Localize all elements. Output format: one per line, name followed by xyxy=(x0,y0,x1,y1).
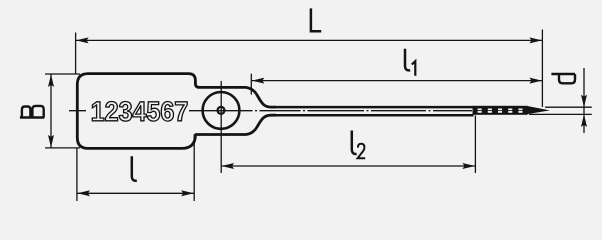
strip top edge xyxy=(274,106,474,109)
arrow B bottom xyxy=(48,135,54,148)
extension line l2 right xyxy=(474,116,476,174)
dimension B line xyxy=(50,74,52,147)
arrow l left xyxy=(77,190,90,196)
strip serration band xyxy=(473,106,528,115)
strip pointed tip xyxy=(527,106,550,114)
arrow l1 left xyxy=(252,78,265,84)
centerline vertical through circle xyxy=(220,81,222,173)
extension line right (L and l1) xyxy=(541,30,543,108)
extension line L left xyxy=(75,33,77,75)
label d xyxy=(551,74,575,83)
arrow l2 right xyxy=(462,163,475,169)
dimension l2 line xyxy=(222,165,476,167)
hole circle xyxy=(203,92,240,129)
label l1 xyxy=(405,49,415,76)
arrow l1 right xyxy=(529,78,542,84)
arrow l right xyxy=(181,190,194,196)
extension line l right xyxy=(193,135,195,202)
arrow L left xyxy=(76,37,89,43)
dimension L line xyxy=(76,39,542,41)
extension line d bottom xyxy=(529,113,592,115)
extension line l left xyxy=(76,148,78,201)
label L xyxy=(311,8,321,31)
label l2 xyxy=(352,131,365,159)
extension line B top xyxy=(45,73,80,75)
dimension d arrows xyxy=(583,68,585,133)
serial number 1234567 xyxy=(92,102,187,122)
label l xyxy=(132,156,137,181)
strip bottom edge xyxy=(274,114,474,117)
arrow B top xyxy=(48,74,54,87)
arrow d top (points down) xyxy=(581,95,587,108)
label B xyxy=(20,106,44,118)
extension line l1 left xyxy=(250,74,252,95)
inner hole xyxy=(218,107,225,114)
arrow d bottom (points up) xyxy=(581,114,587,127)
extension line d top xyxy=(545,106,592,108)
arrow L right xyxy=(529,37,542,43)
seal body outline (tag + neck + strip) xyxy=(77,74,276,149)
extension line B bottom xyxy=(45,147,80,149)
centerline horizontal (dash-dot) xyxy=(69,110,472,112)
arrow l2 left xyxy=(222,163,235,169)
dimension l line xyxy=(77,192,193,194)
dimension l1 line xyxy=(252,80,542,82)
